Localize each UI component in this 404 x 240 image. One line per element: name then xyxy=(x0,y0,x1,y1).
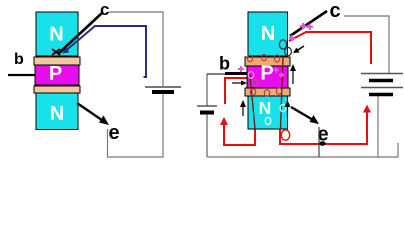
base lead right xyxy=(225,72,247,75)
wire collector lead black diagonal xyxy=(58,13,102,54)
collector lead black diagonal right xyxy=(290,11,327,36)
electron pair at collector corner xyxy=(279,40,286,49)
transistor P region xyxy=(35,65,79,85)
svg-text:N: N xyxy=(49,24,63,46)
junction stripe top right xyxy=(245,57,290,66)
svg-text:c: c xyxy=(100,0,109,19)
transistor N region bottom xyxy=(36,93,78,130)
svg-text:N: N xyxy=(261,23,275,45)
junction stripe bottom right xyxy=(245,88,290,96)
base lead wire xyxy=(8,74,35,76)
electrons in top junction stripe xyxy=(247,55,252,61)
wire base battery bottom xyxy=(206,113,208,157)
electrons in bottom junction stripe xyxy=(250,89,255,96)
wire red current through device right xyxy=(281,57,284,129)
wire battery bottom to emitter xyxy=(108,93,164,157)
emitter wire to loop xyxy=(318,127,320,157)
battery B3 thin plate 2 xyxy=(361,87,403,89)
wire red base feed xyxy=(225,78,250,104)
battery B3 thick plate 1 xyxy=(369,79,393,83)
up arrow inside N right edge xyxy=(287,104,289,116)
hole symbol + near collector lead low xyxy=(289,35,295,41)
battery B2 thin plate xyxy=(197,105,217,107)
base lead thin wire right xyxy=(207,73,226,75)
svg-text:N: N xyxy=(50,103,64,125)
transistor N region bottom right xyxy=(248,96,288,129)
electron red below emitter xyxy=(281,130,289,140)
wire blue collector lead xyxy=(66,26,146,77)
battery B1 thick plate xyxy=(152,90,174,94)
battery B3 thick plate 2 xyxy=(369,93,393,97)
transistor N region top right xyxy=(248,12,288,56)
svg-text:P: P xyxy=(260,63,273,85)
hole symbol + left of base xyxy=(238,66,244,72)
hole symbols + near collector lead top xyxy=(300,23,306,30)
wire outer loop top xyxy=(344,16,389,73)
hole symbols + right of P label xyxy=(274,68,279,73)
electrons in bottom N region xyxy=(280,104,286,111)
wire red collector current xyxy=(289,32,371,64)
emitter lead arrow right xyxy=(291,107,314,121)
battery B3 thin plate 1 xyxy=(361,73,403,75)
wire collector loop gray xyxy=(109,12,163,86)
wire red base return with arrow xyxy=(224,122,255,145)
wire red collector return with arrow xyxy=(280,110,367,144)
svg-text:b: b xyxy=(14,51,24,68)
wire base battery top xyxy=(206,74,208,106)
arrow toward electrons xyxy=(297,46,304,51)
junction blob on red wire xyxy=(319,141,325,146)
battery B2 thick plate xyxy=(200,111,214,115)
up arrow left of device xyxy=(242,104,244,116)
up arrow right of P xyxy=(292,68,294,84)
emitter lead arrow xyxy=(77,103,104,122)
svg-text:P: P xyxy=(49,63,62,85)
transistor P region right xyxy=(247,66,288,88)
transistor N region top xyxy=(36,12,78,56)
battery B1 thin plate xyxy=(145,86,181,88)
node X junction mark xyxy=(52,49,60,55)
svg-text:N: N xyxy=(259,98,272,118)
black arrow into base xyxy=(232,82,243,84)
blue arrowhead at junction xyxy=(62,48,70,54)
wire red current through device left xyxy=(250,75,255,129)
svg-text:e: e xyxy=(109,122,120,144)
svg-text:c: c xyxy=(330,0,341,22)
junction stripe top xyxy=(34,57,80,65)
holes in P region xyxy=(248,72,254,79)
svg-text:b: b xyxy=(219,54,230,74)
wire outer loop bottom xyxy=(207,96,378,157)
wire outer loop corner stub xyxy=(378,143,398,157)
junction stripe bottom xyxy=(34,86,80,93)
